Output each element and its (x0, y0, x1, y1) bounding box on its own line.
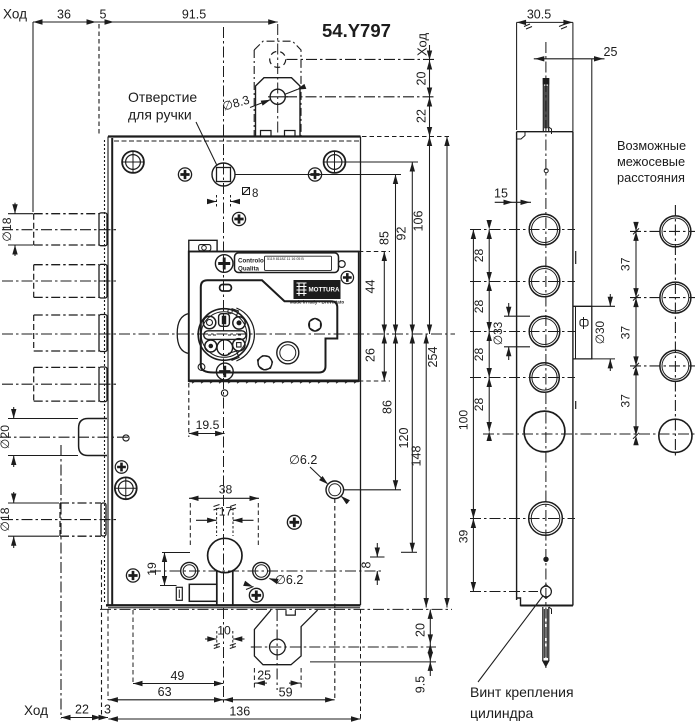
svg-text:расстояния: расстояния (617, 170, 685, 185)
svg-text:28: 28 (472, 249, 486, 263)
svg-text:20: 20 (415, 72, 429, 86)
svg-text:120: 120 (397, 428, 411, 449)
svg-text:15: 15 (494, 187, 508, 201)
svg-text:Отверстие: Отверстие (128, 89, 197, 105)
svg-text:26: 26 (364, 348, 378, 362)
svg-text:148: 148 (410, 446, 424, 467)
svg-text:для ручки: для ручки (128, 107, 192, 123)
svg-text:25: 25 (257, 669, 271, 683)
svg-text:Ход: Ход (3, 7, 27, 22)
svg-text:Controlo: Controlo (238, 258, 264, 265)
svg-text:86: 86 (381, 400, 395, 414)
svg-text:Возможные: Возможные (617, 138, 686, 153)
svg-text:37: 37 (619, 257, 633, 271)
svg-text:49: 49 (170, 669, 184, 683)
svg-text:39: 39 (457, 530, 471, 544)
svg-text:54.Y797: 54.Y797 (322, 20, 391, 41)
svg-text:59: 59 (279, 686, 293, 700)
svg-text:∅6.2: ∅6.2 (275, 573, 303, 587)
svg-text:∅18: ∅18 (0, 217, 14, 241)
svg-text:254: 254 (426, 347, 440, 368)
svg-text:136: 136 (229, 705, 250, 719)
svg-text:91.5: 91.5 (182, 8, 206, 22)
svg-text:92: 92 (395, 227, 409, 241)
svg-text:22: 22 (415, 109, 429, 123)
svg-text:Винт крепления: Винт крепления (470, 684, 574, 700)
svg-text:5119 8118Z 11 16 05 B: 5119 8118Z 11 16 05 B (267, 257, 304, 261)
svg-text:цилиндра: цилиндра (470, 705, 534, 721)
svg-text:22: 22 (75, 703, 89, 717)
svg-text:106: 106 (412, 211, 426, 232)
svg-text:28: 28 (472, 348, 486, 362)
svg-text:19.5: 19.5 (196, 418, 220, 432)
svg-text:28: 28 (472, 300, 486, 314)
svg-text:межосевые: межосевые (617, 154, 685, 169)
svg-text:25: 25 (604, 45, 618, 59)
svg-text:∅30: ∅30 (593, 320, 607, 344)
svg-text:37: 37 (619, 394, 633, 408)
svg-text:37: 37 (619, 326, 633, 340)
svg-text:44: 44 (364, 280, 378, 294)
svg-text:∅20: ∅20 (0, 425, 12, 449)
svg-text:Ход: Ход (415, 33, 430, 56)
svg-text:∅6.2: ∅6.2 (289, 453, 317, 467)
svg-text:20: 20 (414, 623, 428, 637)
svg-text:100: 100 (457, 410, 471, 431)
svg-text:9.5: 9.5 (414, 676, 428, 693)
svg-text:MOTTURA: MOTTURA (309, 287, 340, 294)
svg-text:85: 85 (378, 231, 392, 245)
svg-text:10: 10 (217, 624, 231, 638)
svg-text:Ход: Ход (24, 703, 48, 718)
svg-text:19: 19 (145, 562, 159, 576)
svg-text:8: 8 (252, 188, 258, 200)
svg-text:∅18: ∅18 (0, 507, 12, 531)
svg-text:36: 36 (57, 8, 71, 22)
svg-text:Qualita: Qualita (238, 266, 260, 273)
svg-text:5: 5 (100, 8, 107, 22)
svg-text:28: 28 (472, 398, 486, 412)
svg-text:3: 3 (104, 703, 111, 717)
svg-text:8: 8 (360, 561, 374, 568)
svg-text:∅33: ∅33 (491, 321, 505, 345)
svg-text:38: 38 (219, 483, 233, 497)
svg-text:63: 63 (158, 685, 172, 699)
svg-text:30.5: 30.5 (527, 8, 551, 22)
